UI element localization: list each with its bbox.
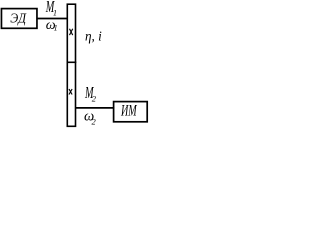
gearbox bar <box>67 4 75 126</box>
svg-text:η, i: η, i <box>85 28 102 43</box>
mesh mark x top <box>70 29 73 35</box>
wire motor shaft <box>37 18 69 20</box>
svg-text:2: 2 <box>92 93 97 103</box>
gearbox divider <box>67 61 77 63</box>
svg-text:ЭД: ЭД <box>10 10 26 26</box>
svg-text:1: 1 <box>54 24 58 33</box>
wire output shaft <box>76 107 115 109</box>
svg-text:2: 2 <box>92 117 97 127</box>
actuator block ИМ <box>114 102 148 122</box>
mesh mark x bottom <box>69 89 72 95</box>
svg-text:ИМ: ИМ <box>120 101 137 119</box>
motor block ЭД <box>1 9 37 29</box>
svg-text:1: 1 <box>53 9 57 18</box>
